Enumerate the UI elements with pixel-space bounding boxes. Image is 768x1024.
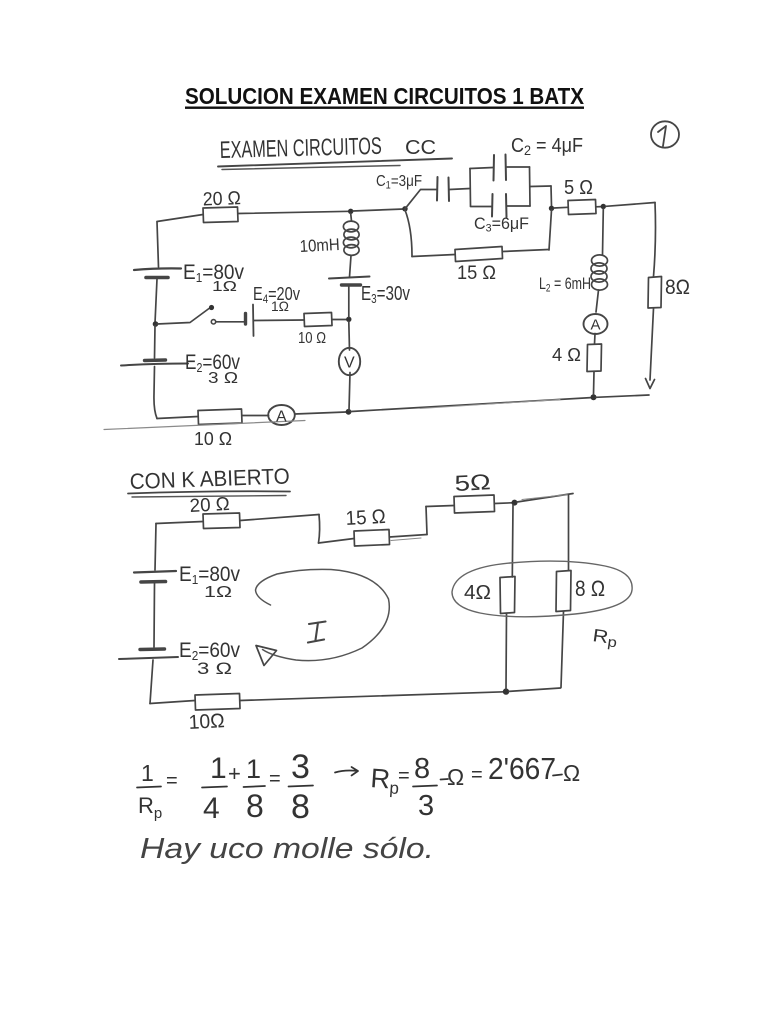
svg-text:1: 1 — [141, 760, 154, 786]
svg-text:=: = — [166, 770, 178, 792]
svg-text:15 Ω: 15 Ω — [345, 506, 386, 530]
svg-text:E3=30v: E3=30v — [361, 283, 410, 306]
svg-text:3: 3 — [418, 790, 434, 822]
svg-text:CON K ABIERTO: CON K ABIERTO — [129, 463, 290, 494]
svg-text:3: 3 — [291, 748, 310, 786]
svg-text:1Ω: 1Ω — [271, 298, 289, 314]
svg-text:8: 8 — [246, 788, 264, 824]
svg-text:CC: CC — [405, 137, 436, 159]
svg-text:4 Ω: 4 Ω — [552, 345, 581, 365]
svg-text:1Ω: 1Ω — [204, 584, 232, 601]
svg-text:5 Ω: 5 Ω — [564, 177, 593, 199]
svg-text:1Ω: 1Ω — [212, 278, 237, 295]
svg-text:8Ω: 8Ω — [665, 276, 690, 299]
svg-text:=: = — [471, 764, 483, 786]
svg-text:Ω: Ω — [563, 760, 580, 786]
svg-text:=: = — [398, 765, 410, 787]
svg-text:4Ω: 4Ω — [464, 582, 491, 604]
svg-text:V: V — [344, 355, 355, 372]
svg-text:10Ω: 10Ω — [188, 710, 225, 734]
svg-text:1: 1 — [246, 754, 261, 784]
svg-text:4: 4 — [203, 792, 220, 825]
svg-text:20 Ω: 20 Ω — [189, 494, 230, 517]
svg-text:C3=6μF: C3=6μF — [474, 215, 529, 235]
svg-text:10 Ω: 10 Ω — [298, 330, 326, 347]
svg-text:L2 = 6mH: L2 = 6mH — [539, 275, 591, 295]
svg-text:8 Ω: 8 Ω — [575, 576, 605, 601]
svg-text:C1=3μF: C1=3μF — [376, 173, 422, 192]
svg-text:1: 1 — [210, 752, 227, 785]
svg-text:Rp: Rp — [369, 763, 400, 798]
svg-text:8: 8 — [414, 753, 430, 785]
svg-text:EXAMEN CIRCUITOS: EXAMEN CIRCUITOS — [219, 133, 382, 164]
svg-text:SOLUCION EXAMEN CIRCUITOS 1 BA: SOLUCION EXAMEN CIRCUITOS 1 BATX — [185, 83, 585, 109]
svg-text:=: = — [269, 768, 281, 790]
svg-text:Ω: Ω — [447, 764, 464, 790]
svg-text:Hay uco molle sólo.: Hay uco molle sólo. — [140, 833, 434, 865]
svg-text:8: 8 — [291, 788, 310, 826]
svg-text:+: + — [228, 761, 241, 786]
svg-text:2'667: 2'667 — [488, 751, 556, 786]
svg-text:3 Ω: 3 Ω — [208, 370, 238, 387]
svg-text:C2 = 4μF: C2 = 4μF — [511, 135, 583, 158]
svg-text:A: A — [591, 317, 601, 334]
svg-text:A: A — [276, 409, 287, 426]
svg-text:5Ω: 5Ω — [454, 469, 491, 496]
svg-text:10 Ω: 10 Ω — [194, 429, 232, 449]
svg-text:10mH: 10mH — [299, 235, 340, 256]
svg-text:20 Ω: 20 Ω — [202, 188, 241, 210]
svg-text:Rp: Rp — [591, 625, 619, 650]
svg-text:15 Ω: 15 Ω — [457, 263, 496, 284]
svg-text:3 Ω: 3 Ω — [197, 659, 232, 678]
svg-text:Rp: Rp — [138, 793, 162, 822]
